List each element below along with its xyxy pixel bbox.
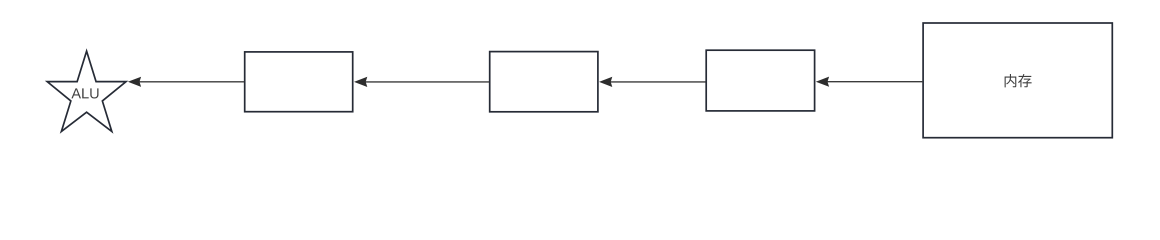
arrowhead at star (128, 77, 141, 87)
box B2 (490, 52, 598, 112)
star ALU (47, 51, 126, 131)
wire B3 to B2 (610, 81, 705, 83)
box memory (923, 23, 1112, 138)
arrowhead at B2 (599, 77, 612, 87)
label 内存 (1005, 74, 1032, 87)
wire B2 to B1 (365, 81, 489, 83)
label ALU (71, 88, 98, 98)
arrowhead at B3 (816, 77, 829, 87)
box B3 (706, 50, 814, 111)
box B1 (245, 52, 353, 112)
wire B1 to star (139, 81, 244, 83)
arrowhead at B1 (354, 77, 367, 87)
wire memory to B3 (827, 81, 922, 83)
